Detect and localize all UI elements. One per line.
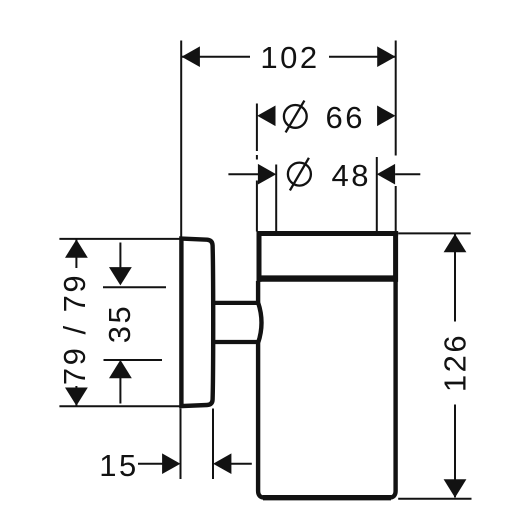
mounting arm top line bbox=[213, 301, 260, 305]
svg-text:66: 66 bbox=[326, 100, 365, 135]
svg-text:126: 126 bbox=[438, 333, 473, 392]
dim 102: left extension line bbox=[180, 41, 182, 239]
svg-text:79 / 79: 79 / 79 bbox=[57, 273, 92, 385]
svg-text:48: 48 bbox=[332, 158, 371, 193]
svg-text:35: 35 bbox=[102, 304, 137, 343]
dim 102: dimension line bbox=[182, 56, 396, 58]
dim 79/79: top extension line bbox=[59, 238, 182, 240]
dim 15: right leader tail bbox=[231, 463, 252, 465]
dim 102: left arrowhead bbox=[182, 46, 200, 67]
dim 66: left arrowhead bbox=[257, 106, 275, 127]
dim 79/79: bottom extension line bbox=[59, 405, 183, 407]
dim 79/79: top arrowhead bbox=[65, 239, 88, 257]
dim 48: right extension line bbox=[376, 157, 378, 232]
cup holder rim top edge bbox=[257, 231, 399, 236]
dim 48: right leader tail bbox=[395, 173, 420, 175]
dim 102: right arrowhead bbox=[377, 46, 395, 67]
dim 35: bottom arrowhead (pointing up) bbox=[109, 360, 132, 378]
dim 102/66: right extension line (upper part) bbox=[395, 41, 397, 156]
dim 126: label text (rotated) bbox=[438, 322, 473, 405]
cup holder rim right edge bbox=[393, 231, 398, 282]
dim 126: dimension line bbox=[454, 234, 456, 498]
dim 66: left extension line (dash) bbox=[256, 155, 258, 160]
dim 35: dimension line lower segment bbox=[119, 378, 121, 404]
dim 35: top arrowhead (pointing down) bbox=[109, 267, 132, 285]
dim 48: right arrowhead bbox=[377, 164, 395, 185]
dim 15: left arrowhead (pointing right) bbox=[162, 453, 180, 474]
dim 48: left arrowhead bbox=[258, 164, 276, 185]
dim 79/79: bottom arrowhead bbox=[65, 388, 88, 406]
dim 126: top arrowhead bbox=[444, 234, 467, 252]
wall plate outline bbox=[181, 239, 213, 407]
dim 79/79: dimension line bbox=[75, 239, 77, 405]
dim 35: top extension line bbox=[103, 286, 166, 288]
dim 15: right extension line bbox=[212, 409, 214, 480]
dim 102: label text bbox=[250, 40, 329, 75]
cup holder rim left edge bbox=[257, 231, 262, 282]
svg-text:15: 15 bbox=[99, 448, 138, 483]
dim 48: left extension line bbox=[275, 165, 277, 232]
cup holder rim bottom band bbox=[257, 275, 398, 281]
tumbler body outline with mount bulge on left edge bbox=[258, 281, 396, 498]
mounting arm bottom line bbox=[213, 340, 260, 344]
svg-text:102: 102 bbox=[260, 40, 319, 75]
dim 66: left extension line (solid bottom) bbox=[256, 181, 258, 232]
dim 126: bottom extension line bbox=[398, 498, 471, 500]
dim 66: diameter symbol bbox=[284, 101, 307, 133]
dim 126: bottom arrowhead bbox=[444, 479, 467, 497]
dim 102/66: right extension line (lower dashed part) bbox=[395, 186, 397, 232]
dim 48: left leader tail bbox=[228, 173, 258, 175]
dim 15: right arrowhead (pointing left) bbox=[213, 453, 231, 474]
dim 35: dimension line upper segment bbox=[119, 243, 121, 268]
dim 126: top extension line bbox=[398, 232, 471, 234]
dim 66: left extension line (solid top) bbox=[256, 104, 258, 152]
dim 35: bottom extension line bbox=[104, 359, 163, 361]
dim 15: leader line from text bbox=[138, 463, 163, 465]
dim 79/79: label text (rotated) bbox=[57, 268, 92, 386]
dim 15: left extension line bbox=[180, 409, 182, 480]
tumbler body bottom edge thickening bbox=[263, 495, 391, 500]
dim 66: right arrowhead bbox=[377, 106, 395, 127]
dim 48: diameter symbol bbox=[288, 158, 311, 191]
